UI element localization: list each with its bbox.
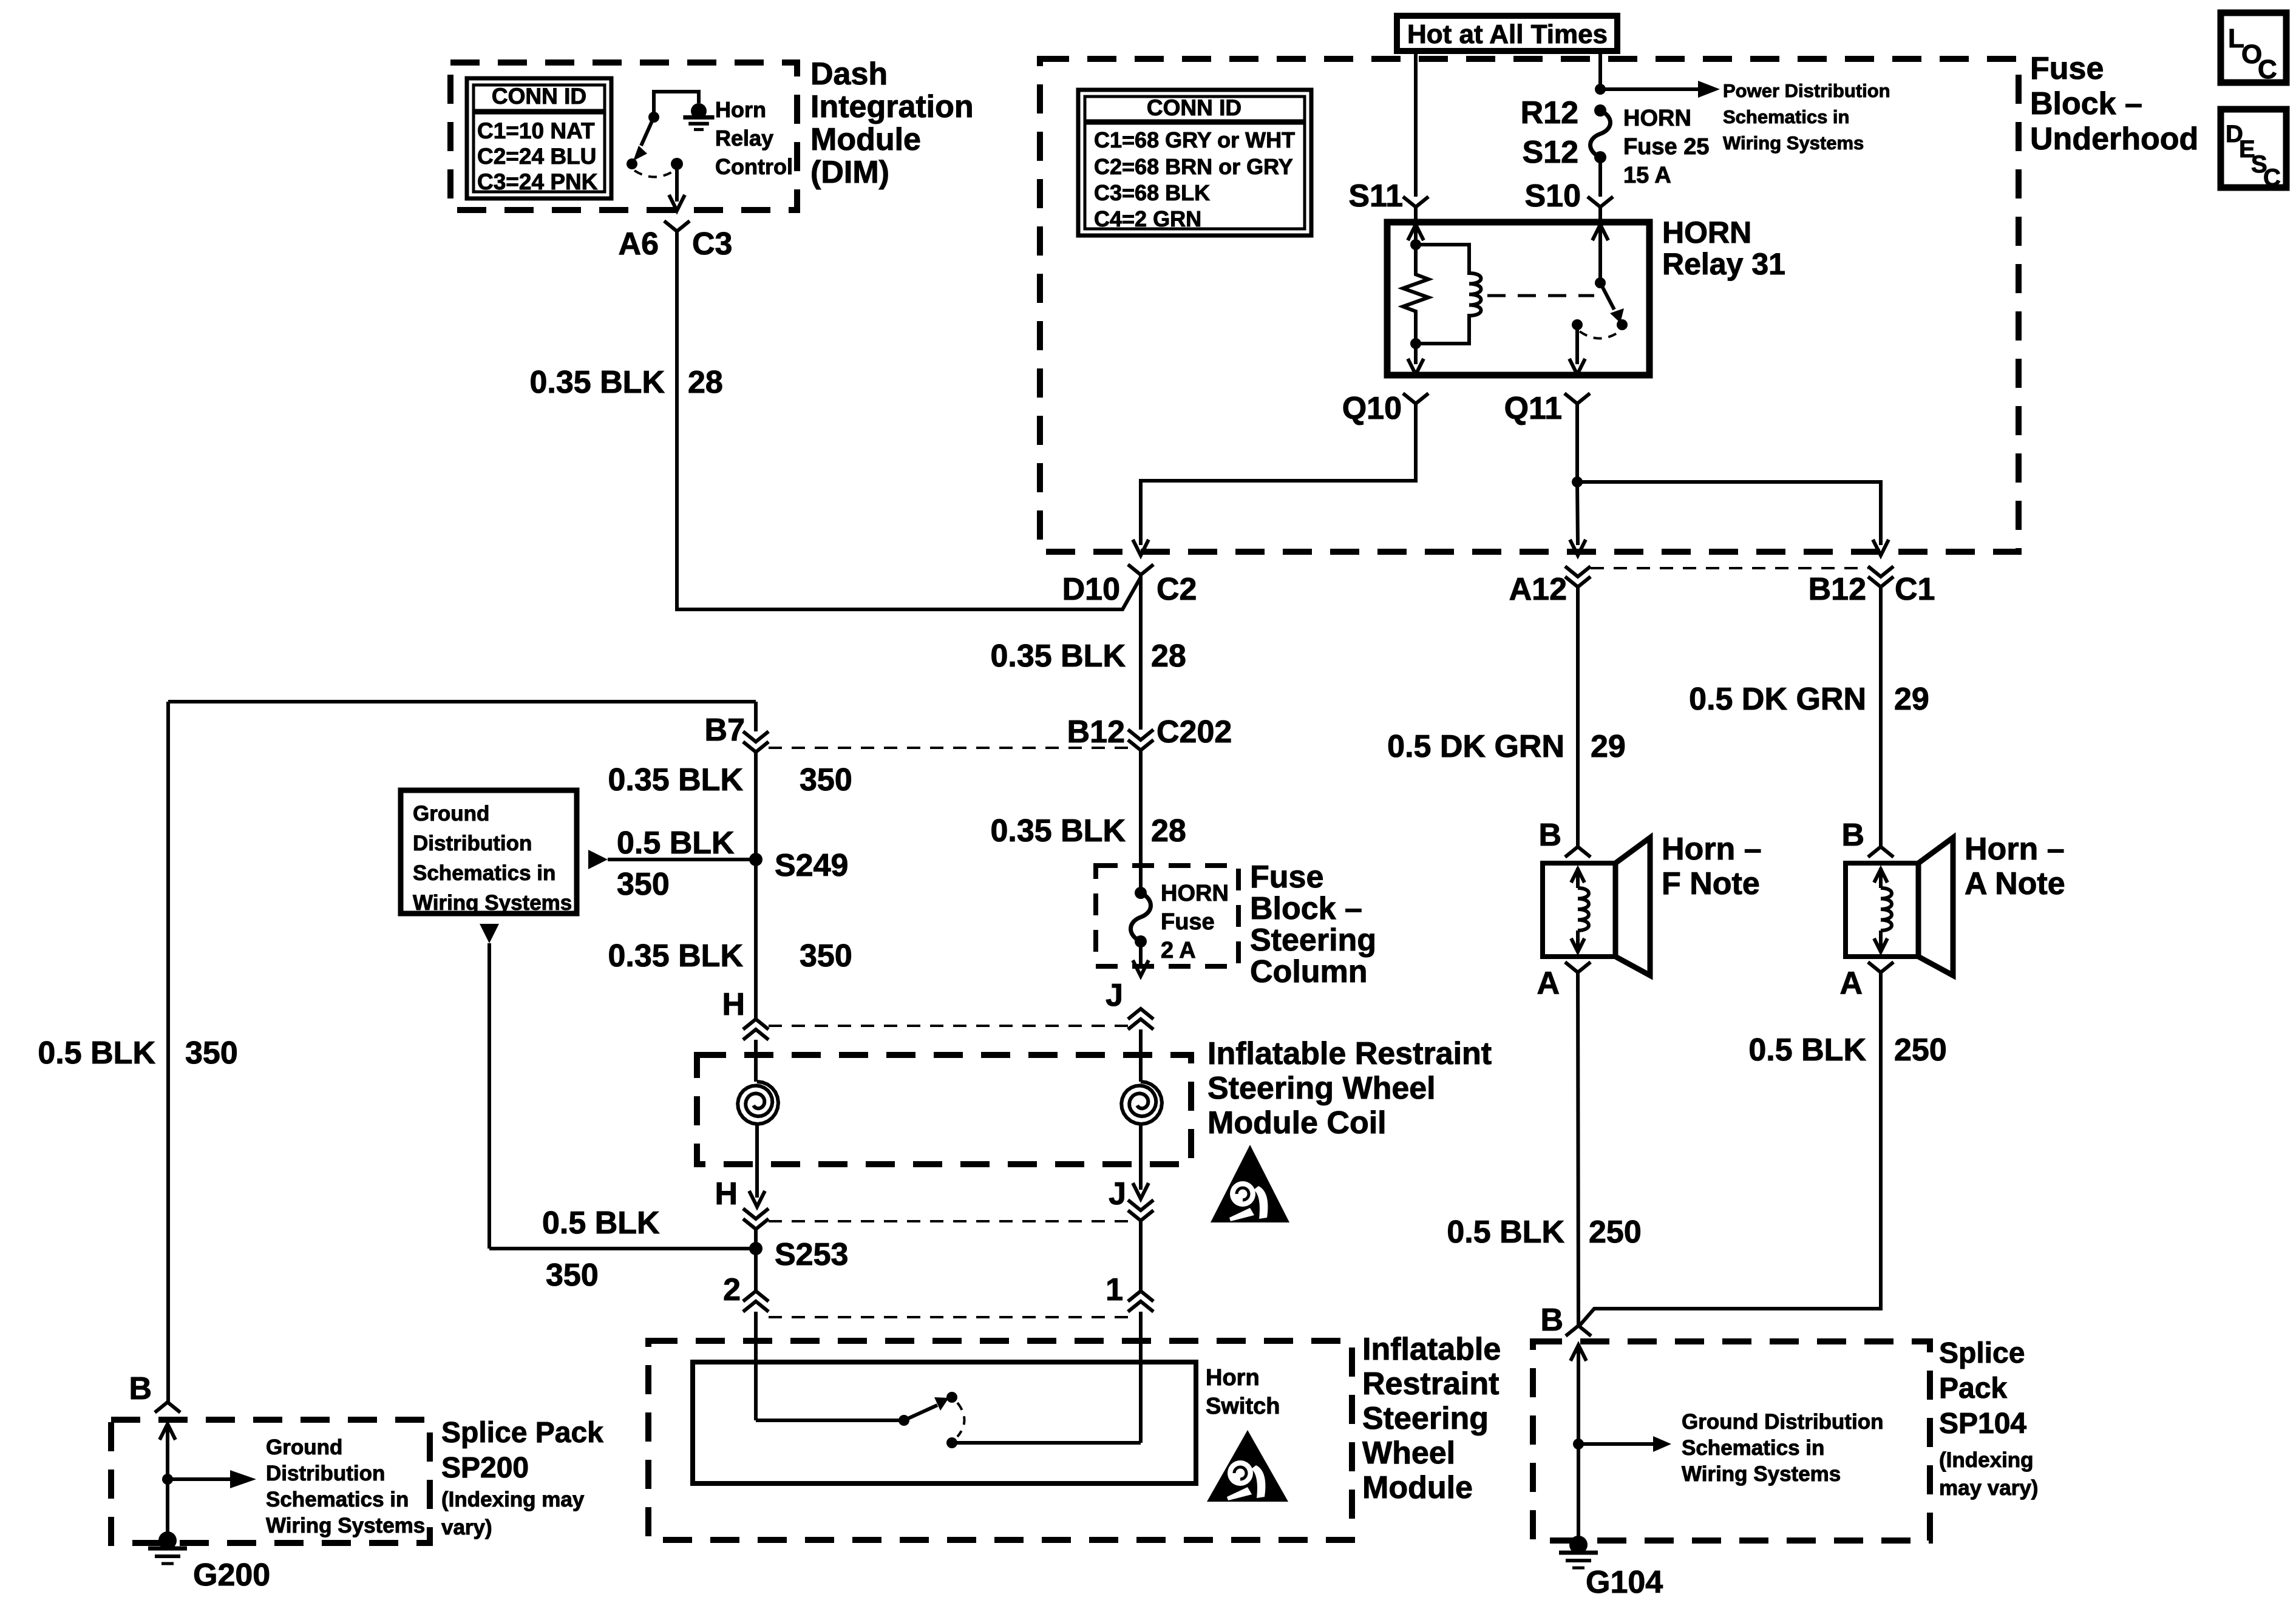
svg-text:0.5 BLK: 0.5 BLK [1748,1032,1866,1068]
svg-text:C1: C1 [1895,572,1935,607]
switch common contact node [671,158,683,170]
svg-text:A: A [1537,966,1560,1001]
svg-text:1: 1 [1106,1272,1123,1307]
svg-text:Horn –: Horn – [1662,832,1762,867]
svg-text:Column: Column [1250,954,1368,989]
svg-text:B: B [1540,1303,1563,1338]
svg-text:C: C [2258,55,2277,84]
Splice Pack SP104 dashed box [1533,1341,1930,1541]
svg-text:Ground: Ground [266,1436,342,1459]
wire from switch common to DIM pin [675,164,679,202]
svg-text:F Note: F Note [1662,866,1760,901]
wire W15 0.5 DK GRN 29 from A12 to Horn F Note [1576,587,1580,847]
wire coil left output with down arrow [755,1124,759,1198]
horn switch SW2 box [693,1362,1196,1483]
svg-text:S249: S249 [775,848,848,883]
wire W1 0.35 BLK 28 from DIM A6/C3 to D10 [677,231,1141,609]
connector alignment dashed line A12-B12 [1591,567,1868,569]
svg-text:15 A: 15 A [1623,163,1671,188]
reference arrow from Ground Distribution box to S253 [480,924,499,943]
relay K1 HORN Relay 31 box [1387,222,1649,375]
ground G200 symbol [158,1531,177,1550]
svg-text:D10: D10 [1062,572,1120,607]
svg-text:Wiring Systems: Wiring Systems [1682,1462,1841,1486]
svg-text:250: 250 [1589,1215,1642,1250]
svg-text:H: H [722,987,745,1022]
horn trapezoid bell [1615,838,1650,975]
horn relay control switch SW1 inside DIM [654,92,699,117]
horn switch wire from pin 2 [756,1419,904,1422]
svg-text:0.35 BLK: 0.35 BLK [608,938,743,974]
reference arrow from Ground Distribution box to S249 [588,850,608,869]
connector alignment dashed line 2-1 [769,1316,1128,1318]
svg-text:SP104: SP104 [1939,1408,2026,1440]
svg-text:SP200: SP200 [441,1452,529,1484]
svg-text:(Indexing: (Indexing [1939,1448,2034,1472]
svg-text:28: 28 [688,365,723,400]
svg-text:Module: Module [810,122,921,157]
svg-text:R12: R12 [1521,95,1578,131]
svg-text:Inflatable: Inflatable [1362,1332,1501,1367]
wire from Hot at All Times to S11 [1414,51,1418,197]
LOC legend box [2221,13,2286,83]
svg-text:Schematics in: Schematics in [1682,1436,1824,1460]
relay switch feed wire with up arrow [1592,225,1608,240]
svg-text:C2=68 BRN or GRY: C2=68 BRN or GRY [1094,154,1293,179]
wire J into coil box [1139,1029,1143,1082]
svg-text:HORN: HORN [1662,215,1751,249]
reference arrow to Ground Distribution Schematics left [168,1477,230,1481]
svg-text:Horn: Horn [715,97,766,122]
svg-text:may vary): may vary) [1939,1476,2038,1500]
horn terminal A [1565,962,1591,972]
svg-text:Horn –: Horn – [1965,832,2065,867]
connector alignment dashed line C202 [769,747,1128,749]
ground symbol inside DIM [691,103,707,119]
wire W14 from S253 to connector 2 [754,1249,758,1291]
svg-text:Splice: Splice [1939,1337,2025,1369]
reference arrow to Ground Distribution Schematics right [1578,1442,1653,1446]
horn switch pivot node [898,1415,909,1426]
wire W9 0.5 BLK 350 left ground wire down to SP200 [166,702,170,1402]
svg-text:C3: C3 [692,226,732,262]
svg-text:Relay: Relay [715,126,773,151]
connector alignment dashed line H-J lower [769,1220,1128,1222]
svg-text:J: J [1109,1176,1126,1212]
wire W5 junction to A12 drop [1577,482,1578,545]
SRS caution triangle upper [1211,1145,1289,1222]
svg-text:(DIM): (DIM) [810,155,889,190]
svg-text:Horn: Horn [1206,1365,1260,1391]
relay coil L1 internal [1416,245,1481,344]
relay switch dashed travel arc [1580,331,1620,339]
svg-text:350: 350 [546,1258,599,1293]
svg-text:0.5 DK GRN: 0.5 DK GRN [1387,729,1564,764]
svg-text:C: C [2263,164,2281,191]
Splice Pack SP200 dashed box [111,1420,430,1543]
svg-text:0.5 BLK: 0.5 BLK [542,1205,660,1241]
svg-text:B: B [1841,818,1864,853]
svg-text:Switch: Switch [1206,1394,1280,1419]
relay switch pivot node [1595,277,1606,288]
horn switch wire to pin 1 [952,1441,1141,1445]
svg-text:29: 29 [1894,682,1929,717]
power feed box Hot at All Times [1397,16,1617,51]
svg-text:Schematics in: Schematics in [1723,106,1849,127]
wire W4 junction to B12/C1 drop [1577,482,1881,545]
connector B12 / C1 [1868,566,1894,587]
relay coil feed wire with up arrow [1408,225,1424,240]
switch dashed travel arc [634,171,674,177]
svg-text:B12: B12 [1067,714,1125,750]
wire 1 into module box [1139,1312,1143,1443]
wire from fuse 2A to J with down arrow [1139,941,1143,966]
wire W17 0.5 BLK 250 from Horn F Note A to splice pack B [1578,972,1578,1326]
svg-text:350: 350 [185,1036,238,1071]
svg-text:0.5 DK GRN: 0.5 DK GRN [1689,682,1866,717]
wire W18 0.5 BLK 250 from Horn A Note A to junction [1578,972,1881,1327]
horn body box [1543,863,1615,957]
svg-text:2: 2 [723,1272,741,1307]
svg-text:0.5 BLK: 0.5 BLK [1447,1215,1564,1250]
switch arm arrow of SW1 [641,117,654,146]
svg-text:29: 29 [1591,729,1626,764]
svg-text:Power Distribution: Power Distribution [1723,80,1890,101]
svg-text:S12: S12 [1522,135,1578,170]
relay coil bottom junction node [1410,338,1421,349]
svg-text:C202: C202 [1156,714,1232,750]
module U1 Dash Integration Module dashed box [450,63,797,210]
svg-text:Ground: Ground [413,802,489,825]
wire into SP200 with up arrow [160,1424,175,1440]
wire into SP104 with up arrow [1571,1345,1586,1361]
svg-text:Inflatable Restraint: Inflatable Restraint [1207,1036,1492,1071]
Inflatable Restraint Steering Wheel Module Coil dashed box [697,1055,1191,1164]
svg-text:0.35 BLK: 0.35 BLK [990,639,1126,674]
Inflatable Restraint Steering Wheel Module dashed box [648,1341,1352,1540]
horn switch lower contact node [946,1437,957,1448]
svg-text:A6: A6 [619,226,659,262]
svg-text:G104: G104 [1586,1565,1663,1600]
connector A12 [1565,566,1591,587]
svg-text:Q11: Q11 [1504,391,1562,426]
svg-text:CONN ID: CONN ID [492,84,586,109]
svg-text:C1=10 NAT: C1=10 NAT [477,118,595,143]
wire W2 from Q10 to D10/C2 [1141,412,1416,545]
svg-text:G200: G200 [193,1558,270,1593]
svg-text:Splice Pack: Splice Pack [441,1417,603,1449]
junction node in SP200 [162,1474,173,1485]
wire W13 from J lower to connector 1 [1139,1221,1143,1291]
relay coil output wire with down arrow [1414,344,1418,364]
ground G104 symbol [1569,1536,1588,1554]
svg-text:Block –: Block – [1250,891,1362,926]
connector D10 / C2 [1128,564,1153,575]
svg-text:Distribution: Distribution [266,1462,385,1485]
svg-text:Module Coil: Module Coil [1207,1105,1387,1141]
svg-text:Fuse: Fuse [2030,51,2104,86]
svg-text:B7: B7 [705,713,745,748]
relay resistor R internal [1403,245,1428,344]
svg-text:Dash: Dash [810,56,888,92]
fuse F1 HORN Fuse 25 15 A [1591,110,1611,157]
horn coil element with arrows [1874,869,1887,883]
clockspring coil spiral left [738,1082,778,1124]
wire W12 from H to S253 [754,1229,758,1249]
fuse F2 HORN Fuse 2 A [1131,893,1151,941]
svg-text:0.35 BLK: 0.35 BLK [990,813,1126,849]
svg-text:A Note: A Note [1965,866,2065,901]
svg-text:B: B [1538,818,1561,853]
horn coil element with arrows [1571,869,1584,883]
SRS caution triangle lower [1207,1430,1288,1502]
fuse block CONN ID table [1078,90,1311,236]
DIM CONN ID table [467,78,611,198]
svg-text:CONN ID: CONN ID [1147,95,1241,120]
svg-text:250: 250 [1894,1032,1947,1068]
relay switch arm arrow [1600,283,1614,310]
svg-text:S11: S11 [1348,178,1403,214]
horn body box [1846,863,1918,957]
wire from Hot at All Times to fuse 25 [1598,51,1602,89]
svg-text:HORN: HORN [1623,106,1691,131]
switch contact node inside DIM [627,158,637,169]
svg-text:Distribution: Distribution [413,832,532,855]
svg-text:C3=68 BLK: C3=68 BLK [1094,180,1210,205]
svg-text:Q10: Q10 [1342,391,1402,426]
svg-text:Pack: Pack [1939,1372,2007,1405]
DESC legend box [2221,109,2286,188]
svg-text:Integration: Integration [810,89,974,124]
svg-text:Module: Module [1362,1470,1473,1505]
svg-text:0.5 BLK: 0.5 BLK [38,1036,155,1071]
wire W8 top link from B7 wire to left ground wire [168,700,756,703]
svg-text:350: 350 [617,867,670,902]
svg-text:Wiring Systems: Wiring Systems [413,891,572,915]
svg-text:0.35 BLK: 0.35 BLK [608,762,743,798]
svg-text:350: 350 [800,762,852,798]
svg-text:Block –: Block – [2030,86,2142,121]
horn trapezoid bell [1918,838,1953,975]
relay actuation dashed link [1487,294,1594,297]
horn terminal A [1868,962,1894,972]
svg-text:C3=24 PNK: C3=24 PNK [477,169,598,194]
reference arrow to Power Distribution Schematics [1600,87,1698,91]
horn switch dashed travel arc [957,1403,965,1437]
wire B7 drop [754,702,758,731]
svg-text:Fuse 25: Fuse 25 [1623,134,1710,160]
svg-text:28: 28 [1151,813,1186,849]
wire W10 0.35 BLK 350 from B7 to S249 [754,752,758,859]
relay coil top junction node [1410,239,1421,250]
svg-text:Underhood: Underhood [2030,121,2198,157]
wire coil right output with down arrow [1139,1124,1143,1190]
Fuse Block - Steering Column dashed box [1096,866,1238,966]
junction node at fuse 25 feed [1595,84,1606,95]
horn switch arm arrow [904,1405,937,1420]
svg-text:Fuse: Fuse [1250,859,1323,895]
connector pins A6 / C3 [664,221,690,231]
svg-text:Control: Control [715,154,793,179]
connector alignment dashed line H-J upper [769,1025,1128,1027]
svg-text:S253: S253 [775,1237,848,1272]
svg-text:Hot at All Times: Hot at All Times [1407,19,1608,49]
svg-text:C2=24 BLU: C2=24 BLU [477,144,596,169]
svg-text:vary): vary) [441,1516,492,1539]
clockspring coil spiral right [1121,1082,1162,1124]
svg-text:0.5 BLK: 0.5 BLK [617,825,735,861]
svg-text:Relay 31: Relay 31 [1662,247,1785,281]
svg-text:2 A: 2 A [1161,938,1196,963]
wire W11 0.35 BLK 350 from S249 to H [754,859,758,1019]
horn switch upper contact node [946,1392,957,1403]
Fuse Block - Underhood dashed box [1040,59,2019,552]
splice S253 [749,1242,763,1255]
splice S249 [749,853,763,866]
relay switch output wire with down arrow [1575,325,1579,364]
svg-text:0.35 BLK: 0.35 BLK [529,365,665,400]
relay switch contact node left [1572,319,1583,330]
junction node in SP104 [1573,1439,1584,1449]
junction node splice of horn feed [1572,476,1583,487]
svg-text:A: A [1839,966,1863,1001]
svg-text:Schematics in: Schematics in [413,861,555,885]
wire W7 0.35 BLK 28 from C202 to fuse block steering column [1139,750,1143,893]
relay switch contact node right [1617,319,1628,330]
svg-text:Schematics in: Schematics in [266,1488,409,1511]
wire from fuse 25 to S10 [1598,157,1602,197]
svg-text:Ground Distribution: Ground Distribution [1682,1410,1883,1434]
svg-text:(Indexing may: (Indexing may [441,1488,585,1511]
svg-text:C2: C2 [1156,572,1197,607]
svg-text:28: 28 [1151,639,1186,674]
wire W6 0.35 BLK 28 from C2 to C202 [1139,575,1143,730]
svg-text:C1=68 GRY or WHT: C1=68 GRY or WHT [1094,127,1295,152]
svg-text:H: H [715,1176,738,1212]
svg-text:C4=2 GRN: C4=2 GRN [1094,206,1201,231]
svg-text:Wiring Systems: Wiring Systems [1723,132,1864,154]
svg-text:B: B [129,1371,152,1406]
svg-text:A12: A12 [1509,572,1567,607]
wire W3 from Q11 down to junction [1575,412,1579,482]
svg-text:350: 350 [800,938,852,974]
svg-text:B12: B12 [1809,572,1866,607]
svg-text:Steering: Steering [1362,1401,1489,1436]
svg-text:HORN: HORN [1161,881,1229,906]
svg-text:Wheel: Wheel [1362,1436,1455,1471]
svg-text:S10: S10 [1524,178,1581,214]
connector B12 / C202 [1128,730,1153,750]
svg-text:J: J [1106,978,1123,1013]
svg-text:Steering Wheel: Steering Wheel [1207,1071,1436,1106]
wire 2 into module box [754,1312,758,1420]
svg-text:Restraint: Restraint [1362,1366,1499,1402]
svg-text:Wiring Systems: Wiring Systems [266,1514,425,1537]
svg-text:Fuse: Fuse [1161,909,1215,935]
Ground Distribution Schematics reference box [401,790,577,914]
wire H into coil box [754,1040,758,1082]
svg-text:Steering: Steering [1250,923,1376,958]
wire W16 0.5 DK GRN 29 from C1 to Horn A Note [1879,587,1883,847]
